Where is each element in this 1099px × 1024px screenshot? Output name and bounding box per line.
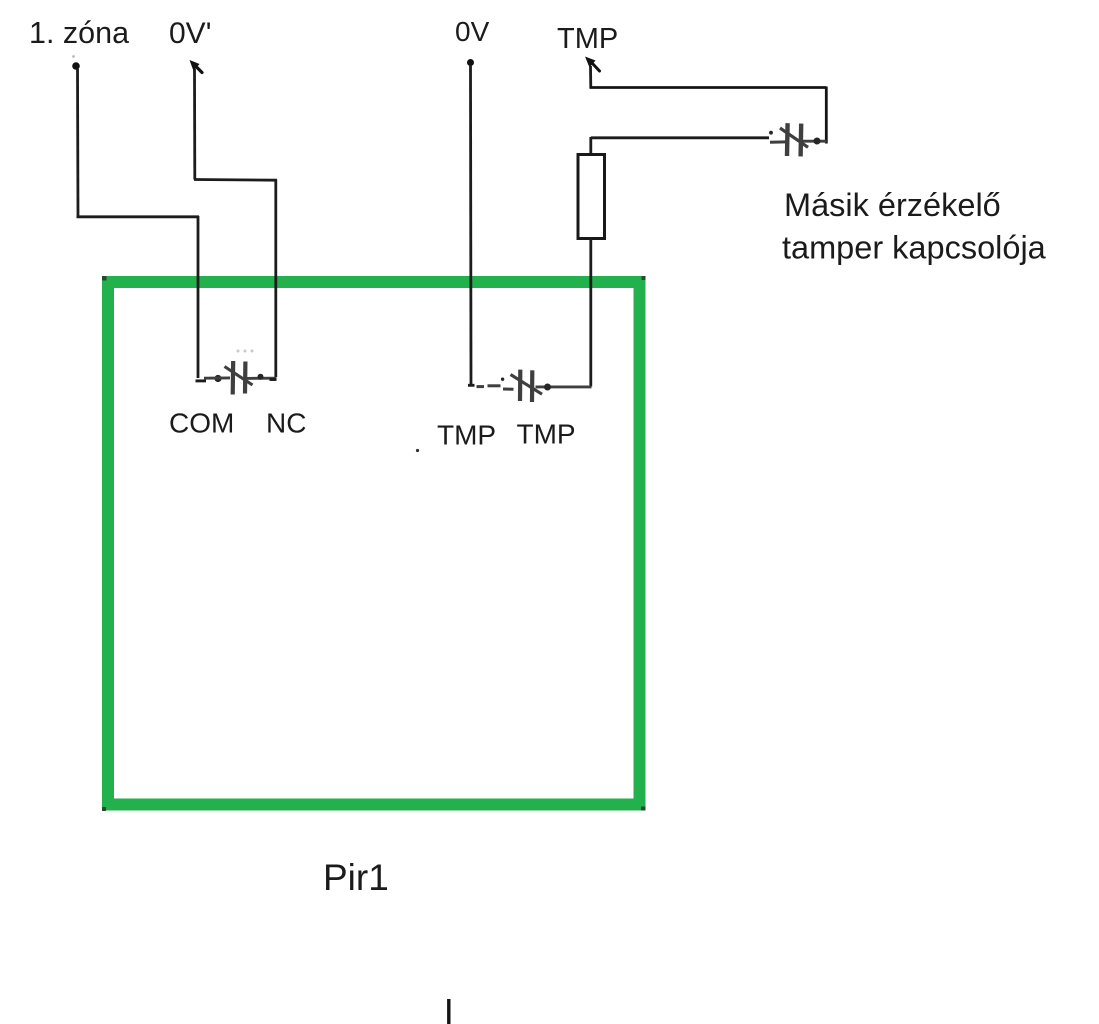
S1 right junction dot (258, 374, 264, 380)
wire: 1. zóna drop (vertical) (76, 69, 79, 217)
wire: 0V' horizontal run (194, 178, 277, 181)
tiny speck before TMP label (416, 449, 419, 452)
PIR detector housing Pir1 (green box) (108, 282, 640, 805)
svg-text:NC: NC (266, 408, 306, 439)
svg-text:tamper kapcsolója: tamper kapcsolója (782, 230, 1047, 266)
corner mark top-right of housing (642, 276, 646, 280)
svg-text:TMP: TMP (557, 23, 618, 55)
S1 actuator diagonal (225, 367, 253, 386)
tamper switch S2 (TMP-TMP) inside PIR (468, 370, 592, 402)
S2 dashed lead segment 2 (488, 384, 501, 387)
S1 left foot (196, 379, 207, 382)
S3 contact bar 1 (785, 123, 790, 156)
wire: resistor bottom drop to TMP terminal (589, 239, 592, 387)
S2 contact bar 2 (530, 370, 534, 402)
wire: 0V drop to TMP terminal (vertical) (469, 65, 472, 385)
S1 right foot (270, 378, 277, 381)
wire: horizontal from S3 back to resistor (591, 136, 769, 139)
svg-text:Másik érzékelő: Másik érzékelő (784, 187, 1001, 223)
wire: drop to NC terminal (274, 180, 277, 378)
wire: drop on right side (825, 87, 828, 144)
svg-text:0V': 0V' (169, 17, 211, 50)
wire: 0V' drop (vertical) (193, 69, 196, 180)
wire: TMP short drop (589, 66, 592, 88)
terminal dot under 1. zóna (72, 62, 80, 70)
wire: 1. zóna horizontal run (77, 215, 200, 218)
S2 left junction dot (501, 378, 504, 381)
S2 right lead (536, 385, 592, 388)
S2 dashed lead segment 1 (477, 385, 485, 388)
corner mark bottom-right of housing (641, 807, 646, 811)
corner mark top-left of housing (102, 276, 107, 281)
svg-text:Pir1: Pir1 (323, 857, 389, 898)
wire: drop to COM terminal (197, 216, 200, 378)
svg-text:1. zóna: 1. zóna (29, 16, 129, 50)
S1 contact bar 1 (231, 361, 236, 395)
arrow pointer at TMP wire end (585, 57, 596, 68)
tamper switch of the other sensor (S3) (769, 123, 826, 156)
wire: top horizontal run to second sensor (590, 86, 827, 89)
svg-text:TMP: TMP (437, 420, 496, 451)
S1 left junction dot (214, 375, 221, 382)
svg-text:TMP: TMP (517, 419, 576, 450)
S2 contact bar 1 (518, 370, 522, 401)
S2 actuator diagonal (511, 375, 543, 395)
svg-text:COM: COM (169, 408, 234, 439)
resistor (EOL, vertical) (578, 155, 605, 239)
S1 left lead (204, 376, 230, 379)
S1 contact bar 2 (243, 362, 248, 394)
arrow pointer at 0V' wire end (190, 60, 200, 71)
S2 left lead stub (503, 388, 514, 391)
S3 left contact dot (769, 131, 773, 135)
wire: short drop into resistor top (589, 137, 592, 155)
S3 right junction dot (814, 138, 821, 145)
S2 left foot (468, 384, 475, 387)
terminal dot under 0V (467, 59, 474, 66)
alarm contact switch S1 (COM-NC) inside PIR (196, 361, 277, 395)
wire: stub at bottom of page (447, 999, 450, 1024)
corner mark bottom-left of housing (102, 807, 106, 811)
S3 left stub tick (770, 140, 786, 143)
faint dots above S1 (237, 350, 254, 353)
S2 right junction dot (544, 384, 551, 391)
S3 actuator diagonal (780, 128, 808, 147)
S3 contact bar 2 (798, 124, 803, 157)
svg-text:0V: 0V (455, 16, 490, 47)
S3 right stub (803, 140, 827, 143)
S1 right lead (247, 377, 277, 380)
faint mark above terminal dot (72, 55, 75, 58)
